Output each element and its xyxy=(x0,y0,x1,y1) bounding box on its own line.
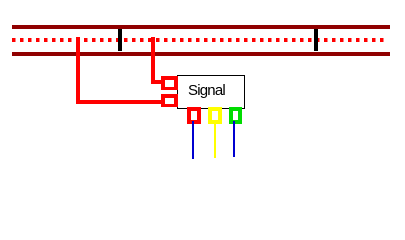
wire W1 horizontal segment xyxy=(76,100,161,104)
wire W2 horizontal segment xyxy=(151,80,161,84)
wire W3 (red lamp lead, blue) xyxy=(192,121,194,159)
label Signal xyxy=(188,83,225,98)
wire W4 (yellow lamp lead, yellow) xyxy=(214,121,216,158)
terminal T5 (green lamp) xyxy=(229,107,242,124)
insulated joint J2 xyxy=(314,29,318,51)
wire W5 (green lamp lead, blue) xyxy=(233,121,235,157)
wire W1 vertical segment xyxy=(76,37,80,104)
terminal T3 (red lamp) xyxy=(187,107,201,124)
rail bottom xyxy=(12,52,390,56)
terminal T2 (lower left, red) xyxy=(161,94,178,107)
terminal T4 (yellow lamp) xyxy=(208,107,222,124)
terminal T1 (upper left, red) xyxy=(161,76,178,90)
signal box U1 xyxy=(177,75,245,109)
rail top xyxy=(12,25,390,29)
wire W2 vertical segment xyxy=(151,37,155,84)
insulated joint J1 xyxy=(118,29,122,51)
dotted track feed line xyxy=(12,38,384,42)
